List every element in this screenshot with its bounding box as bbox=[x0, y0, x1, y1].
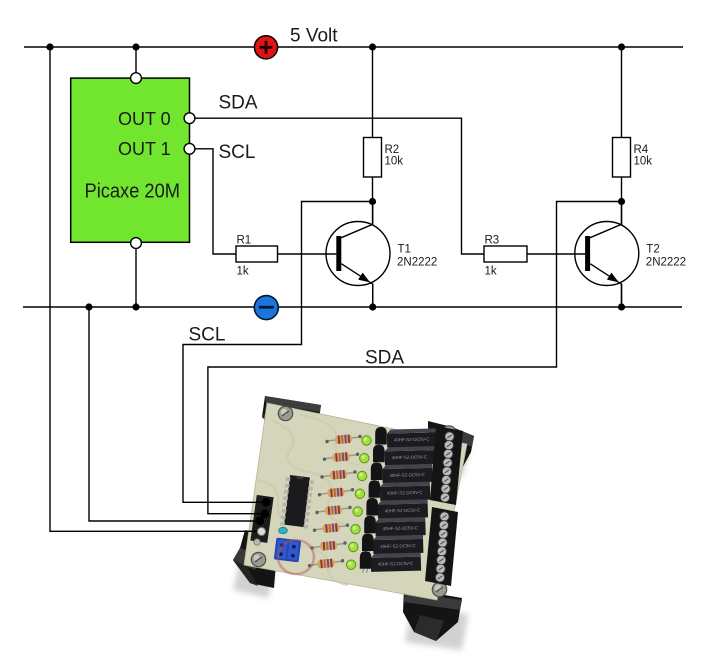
mounting bracket bottom-left bbox=[233, 530, 278, 588]
svg-text:R1: R1 bbox=[237, 234, 252, 246]
svg-text:SCL: SCL bbox=[219, 142, 256, 163]
svg-text:10k: 10k bbox=[634, 156, 653, 168]
wire bottom pin to 0V rail bbox=[132, 242, 139, 311]
wire SCL net T1 collector to board bbox=[183, 202, 373, 503]
svg-text:T2: T2 bbox=[646, 244, 659, 256]
wire top pin to +5V rail bbox=[132, 43, 139, 78]
resistors, LEDs, driver transistors, relays K1-K8 bbox=[308, 427, 437, 573]
label R2 10k bbox=[385, 144, 404, 168]
label R1 1k bbox=[237, 234, 252, 277]
PCB board bbox=[244, 403, 467, 600]
pin bottom of Picaxe bbox=[131, 238, 142, 249]
label T2 2N2222 bbox=[646, 244, 686, 269]
svg-text:40HF-SZ-DC5V-C: 40HF-SZ-DC5V-C bbox=[392, 454, 427, 460]
Picaxe 20M block bbox=[71, 78, 190, 242]
wire R1 to T1 base bbox=[278, 253, 337, 255]
svg-text:40HF-SZ-DC5V-C: 40HF-SZ-DC5V-C bbox=[380, 543, 415, 549]
label R3 1k bbox=[485, 234, 500, 277]
label R4 10k bbox=[634, 144, 653, 168]
I2C input header bbox=[250, 495, 273, 545]
wire R3 to T2 base bbox=[527, 253, 585, 255]
wire +5V rail to R4 bbox=[618, 43, 625, 137]
transistor T1 bbox=[326, 200, 390, 307]
label SCL (board) bbox=[189, 325, 226, 346]
svg-text:Picaxe 20M: Picaxe 20M bbox=[85, 180, 181, 202]
svg-text:R4: R4 bbox=[634, 144, 649, 156]
svg-text:1k: 1k bbox=[485, 265, 497, 277]
svg-text:40HF-SZ-DC5V-C: 40HF-SZ-DC5V-C bbox=[378, 561, 413, 567]
resistor R4 bbox=[613, 138, 631, 178]
battery - symbol bbox=[254, 296, 278, 320]
svg-text:1k: 1k bbox=[237, 265, 249, 277]
svg-text:SDA: SDA bbox=[219, 93, 258, 114]
resistor R1 bbox=[236, 246, 278, 262]
svg-text:R3: R3 bbox=[485, 234, 500, 246]
node T1 collector bbox=[369, 198, 376, 205]
svg-text:40HF-SZ-DC5V-C: 40HF-SZ-DC5V-C bbox=[382, 525, 417, 531]
battery + symbol bbox=[254, 36, 277, 59]
label SCL bbox=[219, 142, 256, 163]
pin OUT 0 bbox=[184, 113, 195, 124]
resistor R3 bbox=[484, 246, 527, 262]
board screws bbox=[251, 406, 456, 596]
svg-text:2N2222: 2N2222 bbox=[646, 256, 686, 268]
wire SCL from OUT 1 to R1 bbox=[190, 149, 237, 254]
mounting bracket bottom-right bbox=[403, 588, 462, 641]
mounting bracket top-left bbox=[262, 396, 321, 431]
svg-text:2N2222: 2N2222 bbox=[397, 256, 437, 268]
wire T1 emitter to 0V rail bbox=[369, 284, 376, 311]
svg-text:40HF-SZ-DC5V-C: 40HF-SZ-DC5V-C bbox=[389, 472, 424, 478]
svg-text:SDA: SDA bbox=[365, 348, 404, 369]
wire bottom 0V rail bbox=[23, 306, 682, 308]
svg-text:5 Volt: 5 Volt bbox=[290, 26, 338, 47]
node SCL board pin bbox=[262, 498, 271, 507]
mounting bracket top-right bbox=[428, 421, 474, 474]
capacitor bbox=[279, 527, 288, 533]
label SDA bbox=[219, 93, 258, 114]
svg-text:T1: T1 bbox=[398, 244, 411, 256]
resistor R2 bbox=[364, 138, 382, 178]
node SDA board pin bbox=[261, 509, 270, 518]
address jumper block bbox=[274, 537, 301, 562]
IC PCF8574 bbox=[280, 475, 314, 529]
relay board photo bbox=[233, 448, 470, 650]
wire R2 to T1 collector bbox=[372, 177, 374, 225]
svg-text:40HF-SZ-DC5V-C: 40HF-SZ-DC5V-C bbox=[387, 490, 422, 496]
svg-text:10k: 10k bbox=[385, 156, 404, 168]
svg-text:SCL: SCL bbox=[189, 325, 226, 346]
svg-text:40HF-SZ-DC5V-C: 40HF-SZ-DC5V-C bbox=[385, 508, 420, 514]
wire SDA net T2 collector to board bbox=[208, 202, 622, 514]
wire +5V rail to R2 bbox=[369, 43, 376, 137]
transistor T2 bbox=[575, 200, 639, 307]
svg-text:OUT 1: OUT 1 bbox=[118, 139, 171, 159]
node 0V board pin bbox=[255, 517, 264, 526]
label 5 Volt bbox=[290, 26, 338, 47]
wire R4 to T2 collector bbox=[621, 177, 623, 225]
wire T2 emitter to 0V rail bbox=[618, 284, 625, 311]
wire 0V rail to board bbox=[85, 303, 256, 521]
svg-text:R2: R2 bbox=[385, 144, 400, 156]
label T1 2N2222 bbox=[397, 244, 437, 269]
node T2 collector bbox=[618, 198, 625, 205]
terminal blocks bbox=[425, 426, 463, 586]
pin top of Picaxe bbox=[131, 73, 142, 84]
svg-text:40HF-SZ-DC5V-C: 40HF-SZ-DC5V-C bbox=[394, 437, 429, 443]
pin OUT 1 bbox=[184, 143, 195, 154]
wire SDA from OUT 0 to R3 bbox=[190, 118, 485, 254]
red marking bbox=[278, 540, 314, 574]
svg-text:OUT 0: OUT 0 bbox=[118, 109, 171, 129]
wire top +5V rail bbox=[24, 46, 683, 48]
label SDA (board) bbox=[365, 348, 404, 369]
wire +5V rail to board bbox=[46, 43, 257, 531]
